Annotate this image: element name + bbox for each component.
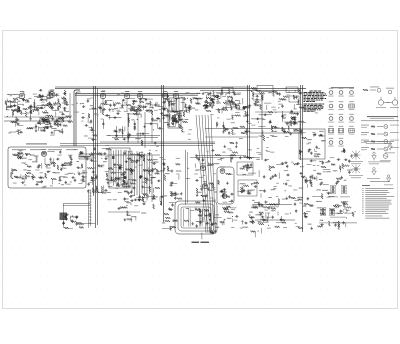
value label: [211, 101, 214, 104]
wire: [128, 113, 130, 127]
resistor R223: [259, 212, 264, 214]
capacitor C20: [43, 128, 45, 129]
capacitor C134: [124, 197, 126, 198]
wire: [118, 192, 122, 194]
ground: [87, 189, 89, 191]
resistor R240: [220, 221, 224, 223]
value label: [176, 112, 181, 115]
resistor R292: [269, 166, 271, 171]
capacitor C168: [230, 193, 231, 195]
ground: [14, 104, 16, 106]
wire: [195, 155, 246, 157]
wire: [248, 172, 256, 174]
wire: [255, 111, 300, 113]
value label: [116, 183, 119, 186]
resistor R91: [293, 95, 295, 99]
capacitor C79: [254, 103, 255, 105]
wire: [254, 231, 256, 237]
resistor R163: [132, 179, 136, 181]
coil L16: [150, 176, 156, 179]
resistor R24: [64, 99, 66, 104]
wire: [119, 177, 127, 179]
capacitor C74: [279, 92, 281, 93]
capacitor C171: [250, 163, 252, 164]
wire: [144, 154, 146, 198]
capacitor C19: [42, 118, 44, 119]
capacitor C3: [22, 98, 24, 99]
wire: [147, 195, 155, 197]
capacitor C24: [46, 127, 47, 129]
resistor R353: [102, 110, 104, 115]
resistor R267: [333, 205, 339, 207]
wire: [134, 124, 136, 129]
capacitor C263: [59, 150, 61, 151]
value label: [303, 212, 308, 215]
wire: [10, 131, 17, 133]
wire: [100, 154, 160, 156]
capacitor C133: [139, 175, 141, 176]
wire: [118, 129, 120, 133]
node N29: [203, 106, 204, 107]
wire: [33, 99, 35, 110]
capacitor C71: [228, 99, 230, 100]
value label: [44, 111, 49, 114]
node N52: [221, 160, 222, 161]
ground: [154, 141, 156, 143]
resistor R92: [283, 96, 288, 98]
value label: [131, 170, 134, 173]
resistor R191: [171, 191, 173, 197]
wire: [234, 219, 238, 221]
capacitor C277: [167, 95, 169, 96]
coil L20: [127, 214, 131, 217]
wire: [45, 125, 49, 127]
resistor R127: [11, 169, 13, 174]
coil L43: [297, 196, 303, 199]
resistor R97: [261, 95, 263, 100]
capacitor C46: [174, 117, 176, 118]
resistor R4: [5, 101, 7, 105]
waveform row: [361, 146, 369, 149]
tube V5: [124, 93, 130, 99]
value label: [6, 106, 9, 109]
value label: [227, 217, 232, 220]
antenna symbol: [387, 178, 391, 182]
capacitor C54: [115, 134, 117, 135]
resistor R113: [65, 162, 71, 164]
tube base diagram V8: [339, 117, 343, 121]
wire: [282, 111, 284, 122]
ground: [132, 107, 134, 109]
resistor R200: [215, 154, 221, 156]
page border: [3, 31, 398, 309]
wire: [274, 175, 277, 177]
wire: [69, 93, 71, 121]
wire: [61, 119, 63, 124]
capacitor C65: [209, 103, 211, 104]
wire: [69, 228, 73, 230]
wire: [41, 121, 48, 123]
value label: [154, 161, 158, 164]
resistor R124: [83, 177, 85, 182]
value label: [76, 160, 79, 163]
resistor R118: [25, 174, 27, 179]
yoke winding: [183, 209, 185, 227]
value label: [243, 115, 247, 118]
wire: [221, 222, 223, 225]
value label: [255, 213, 260, 216]
value label: [166, 113, 171, 116]
node N7: [67, 102, 68, 103]
capacitor C60: [211, 98, 213, 99]
tube base diagram V13: [329, 141, 333, 145]
value label: [141, 212, 146, 215]
value label: [163, 194, 167, 197]
capacitor C52: [151, 117, 153, 118]
wire: [88, 190, 90, 228]
capacitor C182: [224, 208, 225, 210]
ground: [261, 204, 263, 206]
ground: [86, 157, 88, 159]
wire: [103, 185, 105, 192]
resistor R272: [343, 148, 345, 153]
capacitor C229: [284, 162, 285, 164]
wire: [273, 109, 277, 111]
value label: [32, 160, 36, 163]
ground: [239, 156, 241, 158]
notes footer: [365, 215, 382, 218]
resistor R261: [317, 173, 321, 175]
resistor R309: [27, 127, 33, 129]
resistor R342: [25, 153, 30, 155]
capacitor C237: [295, 209, 297, 210]
wire: [75, 93, 200, 95]
wire: [190, 157, 260, 159]
resistor R263: [304, 203, 309, 205]
ground: [171, 169, 173, 171]
resistor R104: [290, 121, 292, 127]
transformer T6: [341, 185, 346, 194]
coil L45: [29, 126, 35, 129]
ground: [314, 133, 316, 135]
value label: [198, 191, 202, 194]
wire: [76, 92, 81, 146]
capacitor C9: [48, 92, 49, 94]
ground: [238, 107, 240, 109]
value label: [344, 179, 347, 182]
capacitor C109: [88, 183, 90, 184]
value label: [229, 200, 233, 203]
value label: [37, 96, 42, 99]
resistor R243: [223, 209, 229, 211]
capacitor C259: [40, 99, 41, 101]
symbol: [335, 204, 339, 208]
wire: [175, 99, 177, 111]
resistor R102: [299, 107, 304, 109]
resistor R27: [58, 99, 60, 104]
node N47: [201, 195, 202, 196]
ground: [300, 129, 302, 131]
resistor R57: [139, 101, 144, 103]
coil L52: [111, 108, 115, 111]
node N36: [296, 129, 297, 130]
resistor R246: [165, 220, 170, 222]
wire: [49, 160, 52, 162]
value label: [254, 201, 259, 204]
value label: [268, 196, 271, 199]
wire: [127, 98, 135, 100]
wire: [89, 192, 92, 194]
resistor R304: [298, 89, 300, 94]
wire: [290, 120, 292, 125]
capacitor C150: [157, 180, 158, 182]
resistor R190: [177, 198, 182, 200]
winding knot: [124, 176, 127, 179]
deflection yoke: [175, 201, 217, 234]
wire: [122, 126, 124, 137]
ground: [314, 177, 316, 179]
wire: [134, 156, 136, 196]
resistor R208: [209, 228, 211, 232]
resistor R312: [115, 138, 119, 140]
capacitor C31: [114, 103, 116, 104]
resistor R136: [96, 186, 98, 190]
capacitor C201: [310, 160, 311, 162]
resistor R11: [20, 110, 22, 114]
wire: [228, 107, 231, 109]
resistor R62: [186, 108, 188, 113]
value label: [47, 97, 51, 100]
wire: [249, 156, 254, 158]
ground: [60, 168, 62, 170]
value label: [242, 173, 246, 176]
node N11: [45, 117, 46, 118]
node N61: [346, 218, 347, 219]
ground: [291, 110, 293, 112]
capacitor C30: [145, 98, 147, 99]
wire: [135, 216, 137, 220]
capacitor C185: [170, 209, 171, 211]
resistor R276: [331, 164, 335, 166]
IF transformer T2: [168, 112, 181, 128]
resistor R275: [339, 166, 341, 170]
capacitor C106: [97, 165, 98, 167]
wire: [19, 107, 21, 112]
wire: [307, 184, 309, 188]
wire: [205, 136, 258, 138]
resistor R188: [172, 193, 178, 195]
capacitor C42: [130, 108, 132, 109]
wire: [217, 159, 221, 161]
resistor R285: [149, 123, 150, 125]
yoke winding: [199, 209, 201, 227]
wire: [26, 128, 32, 130]
capacitor C7: [39, 89, 40, 91]
wire: [63, 96, 65, 101]
resistor R129: [101, 186, 103, 192]
coil L10: [54, 171, 60, 174]
coil L3: [41, 118, 47, 121]
resistor R26: [53, 103, 58, 105]
wire: [267, 213, 269, 217]
wire: [141, 154, 143, 158]
resistor R170: [153, 195, 155, 199]
value label: [55, 109, 59, 112]
wire: [95, 86, 97, 228]
resistor R17: [42, 104, 47, 106]
resistor R15: [38, 107, 43, 109]
ground: [224, 145, 226, 147]
resistor R310: [15, 117, 17, 123]
resistor R33: [55, 121, 60, 123]
capacitor C115: [91, 139, 92, 141]
resistor R149: [79, 227, 83, 229]
resistor R234: [227, 206, 231, 208]
coil L38: [333, 221, 339, 224]
wire: [278, 173, 280, 179]
capacitor C130: [129, 196, 130, 198]
value label: [265, 201, 268, 204]
wire: [140, 114, 142, 118]
wire: [135, 110, 137, 116]
coil L26: [251, 206, 257, 209]
wire: [143, 105, 145, 110]
value label: [90, 179, 95, 182]
node N62: [344, 149, 345, 150]
resistor R186: [175, 192, 177, 196]
value label: [248, 214, 251, 217]
transformer T5: [330, 185, 335, 194]
resistor R37: [54, 123, 59, 125]
ground: [313, 133, 315, 135]
wire: [246, 111, 248, 121]
capacitor C119: [64, 215, 66, 216]
resistor R329: [227, 96, 232, 98]
resistor R200: [258, 204, 263, 206]
node N28: [222, 108, 223, 109]
resistor R343: [12, 154, 17, 156]
resistor R363: [264, 114, 265, 116]
resistor R132: [106, 148, 111, 150]
capacitor C158: [207, 187, 209, 188]
resistor R86: [243, 106, 247, 108]
wire: [63, 203, 90, 205]
wire: [214, 217, 222, 219]
resistor R338: [17, 157, 23, 159]
node N12: [6, 109, 7, 110]
symbol: [363, 89, 368, 91]
wire: [123, 182, 125, 187]
capacitor C232: [280, 218, 282, 219]
resistor R266: [320, 213, 326, 215]
wire: [108, 211, 140, 213]
wire: [231, 226, 234, 228]
resistor R299: [278, 199, 280, 205]
capacitor C47: [171, 123, 172, 125]
value label: [30, 154, 35, 157]
resistor R303: [273, 91, 277, 93]
resistor R133: [97, 153, 102, 155]
ground: [196, 194, 198, 196]
wire: [221, 109, 223, 113]
value label: [226, 100, 231, 103]
resistor R280: [341, 201, 346, 203]
resistor R3: [23, 99, 28, 101]
value label: [235, 99, 239, 102]
capacitor C11: [48, 101, 50, 102]
resistor R87: [298, 100, 300, 105]
resistor R111: [271, 126, 276, 128]
capacitor C178: [200, 221, 202, 222]
wire: [339, 169, 341, 173]
capacitor C220: [263, 175, 265, 176]
resistor R171: [155, 187, 160, 189]
antenna coil L2: [13, 93, 19, 96]
wire: [206, 95, 208, 102]
coil L19: [160, 169, 164, 172]
wire: [89, 189, 92, 191]
label: [26, 143, 47, 144]
resistor R213: [218, 180, 220, 184]
value label: [184, 109, 187, 112]
capacitor C48: [167, 123, 169, 124]
value label: [40, 129, 45, 132]
coil L14: [71, 216, 77, 219]
resistor R340: [51, 162, 56, 164]
node N33: [278, 107, 279, 108]
capacitor C240: [19, 131, 20, 133]
capacitor C176: [259, 214, 260, 216]
wire: [300, 132, 302, 135]
node N16: [6, 108, 7, 109]
capacitor C157: [197, 208, 198, 210]
antenna symbol: [372, 171, 377, 175]
ground: [202, 92, 204, 94]
wire: [81, 178, 83, 183]
resistor R128: [16, 177, 22, 179]
wire: [65, 115, 72, 117]
capacitor C41: [136, 108, 137, 110]
value label: [225, 103, 229, 106]
ground: [242, 106, 244, 108]
node N72: [57, 108, 58, 109]
capacitor C245: [228, 131, 230, 132]
value label: [83, 176, 87, 179]
wire: [294, 117, 296, 122]
wire: [151, 115, 153, 143]
capacitor C212: [348, 171, 350, 172]
resistor R40: [54, 121, 56, 126]
capacitor C193: [310, 175, 312, 176]
resistor R352: [185, 104, 187, 108]
capacitor C62: [224, 107, 225, 109]
capacitor C138: [121, 183, 122, 185]
value label: [51, 162, 54, 165]
resistor R216: [246, 166, 248, 171]
value labels: [13, 182, 17, 185]
wire: [136, 151, 138, 195]
capacitor C72: [231, 100, 233, 101]
node N69: [258, 231, 259, 232]
wire: [99, 166, 103, 168]
resistor R307: [213, 91, 215, 97]
ground: [49, 122, 51, 124]
wire: [264, 102, 271, 104]
wire: [90, 190, 92, 226]
capacitor C173: [240, 191, 241, 193]
wire: [89, 213, 92, 215]
value label: [326, 191, 331, 194]
